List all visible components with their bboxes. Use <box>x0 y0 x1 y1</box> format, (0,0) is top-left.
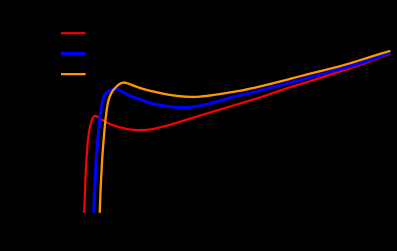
blue curve <box>94 52 391 213</box>
legend red line <box>61 32 86 34</box>
legend orange line <box>61 73 86 75</box>
orange curve <box>100 51 391 213</box>
red curve <box>84 53 390 212</box>
legend blue line <box>61 52 86 55</box>
